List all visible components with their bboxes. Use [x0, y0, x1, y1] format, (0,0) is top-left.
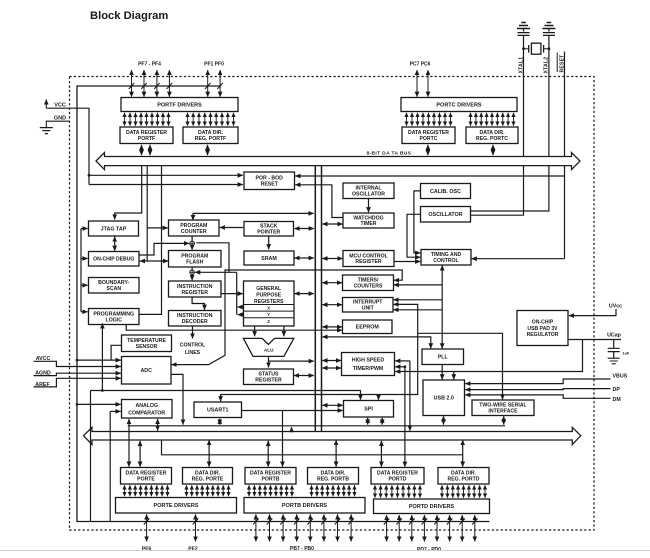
svg-text:COUNTER: COUNTER	[181, 229, 207, 235]
GENERAL PURPOSE REGISTERS (X Y Z)	[244, 281, 295, 326]
svg-text:OSCILLATOR: OSCILLATOR	[352, 191, 385, 197]
svg-text:GENERAL: GENERAL	[256, 286, 281, 292]
wire bus to PORTE register	[139, 441, 141, 467]
wire temperature sensor to ADC line	[111, 345, 121, 360]
pin label PE2	[188, 547, 198, 553]
crystal Q1	[522, 43, 550, 54]
XTAL2 ground symbol	[542, 23, 555, 32]
svg-text:RESET: RESET	[261, 182, 279, 188]
wire program flash to on-chip debug	[140, 260, 168, 262]
wire IR to GPR	[221, 293, 243, 295]
wire high speed timer to bus a	[322, 360, 341, 362]
svg-text:EEPROM: EEPROM	[356, 325, 380, 331]
wire stack pointer to bus	[295, 228, 314, 230]
wire timing control to PLL	[441, 265, 443, 348]
svg-text:1uF: 1uF	[623, 352, 630, 356]
INTERRUPT UNIT	[343, 298, 394, 313]
HIGH SPEED TIMER/PWM	[342, 353, 395, 376]
DATA REGISTER PORTD	[371, 468, 424, 485]
svg-text:UVcc: UVcc	[609, 304, 622, 310]
wire ALU to bus	[269, 360, 314, 362]
wire programming logic to EEPROM	[126, 325, 342, 331]
svg-text:PF7 - PF4: PF7 - PF4	[138, 61, 161, 67]
svg-text:USB PAD 3V: USB PAD 3V	[527, 326, 558, 332]
wire GPR to bus	[295, 293, 314, 295]
TWO-WIRE SERIAL INTERFACE	[472, 400, 534, 416]
DATA REGISTER PORTC	[402, 127, 455, 144]
DATA REGISTER PORTB	[245, 468, 296, 485]
wire PORTC register to bus	[427, 145, 429, 155]
wire MCU ctrl to timing and control	[394, 261, 420, 263]
svg-text:LINES: LINES	[185, 350, 201, 356]
wire bus to port dir registers	[162, 440, 463, 455]
svg-text:PURPOSE: PURPOSE	[256, 293, 282, 299]
CONTROL LINES label	[180, 343, 205, 356]
svg-text:SPI: SPI	[364, 407, 373, 413]
wire supply branch to USB	[453, 372, 455, 380]
svg-text:SRAM: SRAM	[261, 256, 277, 262]
wire two-wire interface to bus	[503, 416, 505, 424]
svg-text:SCAN: SCAN	[106, 286, 121, 292]
VCC to POR-BOD upper arrow	[89, 174, 243, 176]
svg-text:PORTC DRIVERS: PORTC DRIVERS	[436, 102, 482, 108]
USB 2.0	[423, 380, 465, 416]
wire USB to bus	[443, 416, 445, 424]
wire branch to PORTD dir register	[462, 440, 464, 467]
rail crossing slashes	[129, 83, 478, 525]
wire PC to stack pointer	[220, 227, 243, 229]
EEPROM	[343, 320, 393, 334]
XTAL2 capacitor	[543, 33, 555, 36]
svg-text:ON-CHIP: ON-CHIP	[532, 319, 554, 325]
wire program counter to bus	[193, 213, 314, 220]
wire regulator supply line	[395, 340, 582, 372]
wire comparator to PORTE register	[128, 419, 130, 467]
outer dashed chip boundary	[70, 77, 595, 531]
PROGRAM FLASH	[169, 251, 222, 268]
svg-text:X: X	[267, 306, 270, 311]
wire GPR X row out	[238, 306, 244, 308]
svg-text:REG. PORTD: REG. PORTD	[448, 477, 480, 483]
PROGRAM COUNTER	[169, 220, 220, 236]
wire PORTF register to bus b	[149, 145, 151, 155]
wire regulator to UCap	[568, 339, 621, 341]
PORTF pin wires PF7-PF0	[132, 70, 221, 97]
junction node circle2 (flash/IR)	[190, 270, 195, 275]
wire programming logic to bus	[139, 166, 162, 315]
svg-text:CONTROL: CONTROL	[433, 258, 458, 264]
svg-text:REG. PORTE: REG. PORTE	[192, 477, 224, 483]
pin label PD7-PD0	[417, 547, 441, 553]
pin label PF7-PF4	[138, 61, 161, 67]
DATA REGISTER PORTE	[121, 468, 172, 485]
bus comb PORTF drivers-register	[125, 113, 169, 126]
PORTD pin wires PD7-PD0	[387, 515, 475, 542]
vertical bus line A	[314, 166, 316, 431]
wire control lines to ADC and timers	[172, 270, 403, 365]
svg-text:REG. PORTC: REG. PORTC	[476, 136, 508, 142]
svg-text:PORTE DRIVERS: PORTE DRIVERS	[154, 503, 199, 509]
svg-text:PLL: PLL	[438, 355, 449, 361]
WATCHDOG TIMER	[343, 213, 394, 228]
MCU CONTROL REGISTER	[343, 251, 394, 267]
svg-text:PC7 PC6: PC7 PC6	[410, 61, 431, 67]
wire IR to instruction decoder	[192, 297, 204, 310]
svg-text:PE2: PE2	[188, 547, 198, 553]
wire left drop of clock line	[90, 391, 92, 522]
wire watchdog to POR-BOD	[295, 185, 343, 218]
bus comb PORTF drivers-dir	[188, 113, 234, 126]
ADC	[122, 357, 172, 385]
ANALOG COMPARATOR	[122, 400, 173, 419]
page edge line	[0, 550, 650, 552]
CALIB. OSC	[421, 184, 471, 199]
TEMPERATURE SENSOR	[122, 335, 172, 352]
wire SPI to bus left	[322, 404, 343, 406]
svg-text:POINTER: POINTER	[257, 230, 280, 236]
bus comb PORTE dir-drivers	[187, 485, 229, 496]
svg-text:ADC: ADC	[140, 368, 152, 374]
wire GPR Y row out	[238, 314, 244, 316]
svg-text:PB7 - PB0: PB7 - PB0	[290, 546, 314, 552]
wire peripheral clock line	[91, 391, 361, 400]
svg-text:PORTF DRIVERS: PORTF DRIVERS	[157, 102, 202, 108]
wire branch to PORTE dir register	[208, 440, 210, 467]
PORTE DRIVERS U-PE	[116, 498, 237, 514]
wire GPR to ALU a	[254, 326, 256, 336]
pin label PB7-PB0	[290, 546, 314, 552]
svg-text:GND: GND	[54, 115, 66, 121]
wire ALU to status register	[268, 356, 270, 367]
wire PORTF dir to bus	[207, 145, 209, 155]
wire watchdog to bus	[322, 223, 342, 225]
svg-text:PORTD DRIVERS: PORTD DRIVERS	[409, 504, 455, 510]
AGND pin	[34, 371, 121, 377]
PORTC DRIVERS U-PC	[401, 98, 517, 112]
wire rail to ADC	[77, 359, 121, 361]
pin label PF1 PF0	[204, 61, 224, 67]
bus comb PORTD dir-drivers	[442, 485, 485, 497]
bus comb PORTB register-drivers	[249, 485, 292, 496]
svg-text:HIGH SPEED: HIGH SPEED	[352, 358, 385, 364]
wire to PORTB register	[282, 411, 284, 467]
svg-text:PORTE: PORTE	[137, 477, 155, 483]
svg-text:JTAG TAP: JTAG TAP	[101, 226, 127, 232]
svg-text:PF1 PF0: PF1 PF0	[204, 61, 224, 67]
8-bit data bus (top)	[96, 150, 580, 169]
svg-text:Z: Z	[267, 319, 270, 324]
PORTB pin wires PB7-PB0	[256, 514, 351, 541]
bus comb PORTB dir-drivers	[312, 485, 355, 496]
svg-text:DP: DP	[613, 387, 621, 393]
wire instruction decoder to control lines	[192, 326, 194, 338]
wire EEPROM to bus	[322, 326, 342, 328]
wire bus to PLL	[322, 337, 430, 349]
svg-text:FLASH: FLASH	[186, 260, 204, 266]
svg-text:REGISTER: REGISTER	[355, 259, 382, 265]
wire debug chain feed	[81, 229, 88, 312]
svg-text:DM: DM	[613, 397, 622, 403]
svg-text:TIMER/PWM: TIMER/PWM	[353, 366, 384, 372]
svg-text:REGISTER: REGISTER	[181, 290, 208, 296]
svg-text:CALIB. OSC: CALIB. OSC	[430, 189, 461, 195]
XTAL2 wire	[471, 35, 549, 211]
JTAG TAP	[89, 221, 139, 236]
bus comb PORTC drivers-dir	[471, 113, 514, 126]
svg-text:COMPARATOR: COMPARATOR	[128, 410, 165, 416]
wire SRAM to bus	[295, 257, 314, 259]
wire SPI clock to programming logic	[101, 323, 103, 390]
wire JTAG to on-chip debug	[114, 237, 116, 251]
junction node circle1 (PC/flash)	[190, 241, 195, 246]
DATA DIR. REG. PORTF	[183, 127, 238, 144]
svg-text:OSCILLATOR: OSCILLATOR	[428, 212, 462, 218]
ALU U-alu	[243, 338, 293, 356]
PORTD DRIVERS U-PD	[374, 499, 490, 514]
wire ADC to bus	[171, 374, 183, 424]
junction rail-comparator	[76, 403, 79, 406]
svg-text:ON-CHIP DEBUG: ON-CHIP DEBUG	[93, 257, 134, 263]
XTAL1 ground symbol	[517, 23, 530, 32]
wire bus to PORTB register	[267, 441, 269, 467]
wire branch to PORTB dir register	[335, 440, 337, 467]
XTAL2 label	[544, 57, 550, 74]
wire branch to PC left edge	[147, 227, 168, 229]
SPI	[344, 401, 394, 418]
ON-CHIP DEBUG	[89, 252, 140, 267]
junction rail-ADC	[76, 359, 79, 362]
wire peripheral rail	[128, 425, 505, 427]
DATA DIR. REG. PORTC	[466, 127, 518, 144]
XTAL1 capacitor	[518, 33, 530, 36]
wire PLL to USB	[441, 365, 443, 380]
wire SPI to bus a	[367, 418, 369, 425]
svg-text:PORTB DRIVERS: PORTB DRIVERS	[282, 503, 328, 509]
DATA DIR. REG. PORTB	[308, 468, 359, 485]
bus comb PORTE register-drivers	[125, 485, 168, 496]
svg-text:COUNTERS: COUNTERS	[354, 283, 383, 289]
POR-BOD RESET U1	[244, 172, 295, 190]
PLL	[422, 349, 464, 365]
svg-text:DECODER: DECODER	[182, 319, 208, 325]
DATA DIR. REG. PORTD	[438, 468, 489, 485]
DM pin	[465, 395, 621, 403]
XTAL1 wire	[471, 35, 524, 215]
wire comparator input vertical	[109, 411, 111, 521]
INSTRUCTION REGISTER	[169, 281, 222, 297]
INSTRUCTION DECODER	[169, 311, 222, 327]
wire timers to bus	[322, 282, 342, 284]
wire timers to timing and control	[394, 284, 443, 286]
svg-text:Y: Y	[267, 312, 270, 317]
wire GPR to ALU b	[283, 326, 285, 336]
svg-text:ALU: ALU	[264, 348, 274, 353]
RESET label (with overbar)	[557, 53, 565, 73]
VBUS pin	[465, 374, 627, 384]
junction VCC branch	[88, 174, 91, 177]
wire to two-wire serial interface	[418, 333, 503, 399]
PROGRAMMING LOGIC	[89, 309, 140, 325]
VCC rail wire (inner frame)	[77, 86, 490, 522]
BOUNDARY-SCAN	[89, 278, 140, 294]
UCap pin	[607, 333, 622, 339]
svg-text:UCap: UCap	[607, 333, 622, 339]
GND pin	[40, 115, 70, 133]
PORTF DRIVERS U-PF	[121, 98, 238, 112]
wire rail connector	[291, 427, 293, 431]
wire USART1 to bus	[219, 419, 221, 425]
svg-text:Block Diagram: Block Diagram	[90, 10, 168, 22]
SRAM	[244, 251, 294, 265]
wire rail to analog comparator	[77, 403, 121, 405]
svg-text:LOGIC: LOGIC	[106, 317, 123, 323]
STATUS REGISTER	[244, 369, 294, 385]
svg-text:REG. PORTB: REG. PORTB	[317, 477, 349, 483]
svg-text:ANALOG: ANALOG	[136, 403, 158, 409]
svg-text:SENSOR: SENSOR	[136, 344, 158, 350]
TIMERS/COUNTERS	[343, 275, 394, 291]
TIMING AND CONTROL	[421, 250, 471, 266]
svg-text:REGISTER: REGISTER	[255, 378, 282, 384]
pin label PE6	[142, 547, 152, 553]
svg-text:CONTROL: CONTROL	[180, 343, 205, 349]
STACK POINTER	[244, 222, 294, 237]
INTERNAL OSCILLATOR	[343, 183, 394, 199]
wire SPI to bus b	[381, 418, 383, 425]
DATA REGISTER PORTF	[120, 127, 173, 144]
svg-text:USB 2.0: USB 2.0	[434, 396, 454, 402]
wire oscillator to timing and control	[407, 214, 421, 257]
wire bus to PORTD register a	[380, 441, 382, 467]
RESET wire	[564, 52, 566, 259]
wire X/Y registers to circle2	[195, 271, 237, 273]
PORTC pin wires PC7 PC6	[417, 70, 428, 97]
pin label PC7 PC6	[410, 61, 431, 67]
PORTB DRIVERS U-PB	[244, 498, 365, 514]
wire interrupt unit aux	[221, 304, 418, 401]
svg-text:PORTC: PORTC	[420, 136, 438, 142]
DP pin	[465, 387, 620, 393]
bus comb PORTD register-drivers	[375, 485, 420, 497]
DATA DIR. REG. PORTE	[183, 468, 233, 485]
AVCC pin	[34, 356, 121, 367]
wire status register to bus	[294, 375, 314, 377]
svg-text:PORTF: PORTF	[138, 136, 155, 142]
svg-text:PE6: PE6	[142, 547, 152, 553]
wire aux to SPI top	[378, 395, 380, 400]
OSCILLATOR	[421, 207, 471, 223]
UVcc pin	[569, 304, 622, 316]
wire internal oscillator to watchdog	[368, 199, 370, 213]
wire high speed timer to bus b	[322, 367, 341, 369]
VCC pin	[46, 100, 66, 109]
wire MCU control register to bus	[322, 258, 342, 260]
wire on-chip debug to circle1	[139, 243, 189, 255]
vertical bus line B	[321, 166, 323, 431]
svg-text:VBUS: VBUS	[613, 374, 628, 380]
svg-text:REG. PORTF: REG. PORTF	[195, 136, 226, 142]
RESET to timing and control	[472, 258, 565, 260]
svg-text:USART1: USART1	[207, 408, 228, 414]
svg-text:INTERFACE: INTERFACE	[488, 408, 518, 414]
wire calib osc to timing and control	[414, 191, 421, 253]
wire bus to JTAG TAP	[115, 166, 142, 220]
svg-text:TIMER: TIMER	[361, 221, 377, 227]
data bus (bottom)	[84, 427, 581, 444]
VCC to POR-BOD lower arrow	[89, 184, 243, 186]
wire circle2 to instruction register	[191, 275, 193, 281]
PORTE pin wires PE6 PE2	[147, 514, 196, 541]
wire X/Y vertical	[236, 272, 238, 314]
wire PORTF register to bus a	[141, 145, 143, 155]
wire circle1 to program flash	[191, 246, 193, 250]
title Block Diagram	[90, 10, 168, 22]
wire program flash to circle2	[191, 267, 193, 270]
VCC wire to POR-BOD	[46, 108, 89, 184]
wire PORTC dir to bus	[492, 145, 494, 155]
wire PC to node circle1	[191, 236, 193, 241]
capacitor 1uF at UCap	[608, 340, 630, 364]
svg-text:PORTD: PORTD	[389, 477, 407, 483]
bus comb PORTC drivers-register	[407, 113, 451, 126]
ON-CHIP USB PAD 3V REGULATOR	[517, 311, 568, 346]
wire interrupt unit aux2	[393, 309, 442, 311]
wire comparator to bus	[157, 419, 159, 431]
wire interrupt to timing and control	[393, 299, 442, 301]
junction on peripheral line	[101, 389, 104, 392]
RESET to POR-BOD	[295, 175, 564, 177]
svg-text:UNIT: UNIT	[362, 305, 375, 311]
svg-text:PORTB: PORTB	[262, 477, 280, 483]
XTAL1 label	[518, 57, 524, 74]
svg-text:8-BIT DA TA BUS: 8-BIT DA TA BUS	[367, 150, 412, 156]
wire circle1 loop	[196, 243, 229, 272]
wire high speed timer inputs	[395, 361, 410, 467]
AREF pin	[34, 378, 121, 388]
USART1	[194, 402, 242, 418]
wire comparator second input	[110, 410, 121, 412]
wire USART1 to SPI	[242, 410, 343, 412]
wire interrupt unit to bus	[322, 304, 342, 306]
wire bus to program counter left	[146, 166, 148, 261]
wire stack pointer to SRAM	[268, 236, 270, 249]
svg-text:REGULATOR: REGULATOR	[527, 332, 559, 338]
